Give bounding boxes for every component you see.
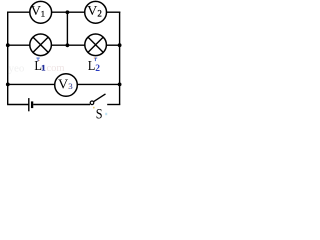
wire left rail to V3 (8, 83, 55, 85)
lamp L2 (85, 34, 107, 56)
svg-text:1: 1 (41, 9, 45, 19)
wire bottom left to battery (7, 104, 29, 106)
svg-text:2: 2 (95, 64, 100, 74)
wire switch to right rail (107, 104, 120, 106)
watermark yellow dot (93, 107, 95, 109)
svg-text:V: V (87, 3, 98, 18)
node junction top middle (66, 10, 70, 14)
watermark blue dot (105, 113, 107, 115)
switch S (90, 94, 105, 105)
wire middle vertical link (66, 12, 68, 45)
voltmeter V1 (30, 1, 52, 23)
svg-text:3: 3 (69, 81, 73, 91)
wire left rail to L1 (8, 44, 30, 46)
svg-text:1: 1 (41, 63, 45, 73)
voltmeter V3 (55, 74, 78, 97)
svg-text:V: V (58, 77, 69, 92)
wire V2 to right rail (107, 11, 121, 13)
battery (29, 98, 32, 111)
node junction left rail lamp row (6, 43, 10, 47)
label S (96, 107, 103, 123)
label L1 (34, 59, 45, 74)
watermark T mark under L1 (36, 58, 39, 62)
wire battery to switch (33, 104, 90, 106)
wire L2 to right rail (106, 44, 119, 46)
watermark yeo (9, 63, 25, 75)
wire right rail (119, 12, 121, 105)
label L2 (88, 59, 100, 74)
lamp L1 (30, 34, 52, 56)
node junction lamp row middle (66, 43, 70, 47)
wire V3 to right rail (77, 83, 119, 85)
wire top-left to V1 (7, 11, 30, 13)
wire V1 to V2 (52, 11, 85, 13)
voltmeter V2 (85, 1, 107, 23)
wire L1 to L2 (51, 44, 85, 46)
node junction left rail V3 row (6, 83, 10, 87)
watermark com (47, 63, 65, 74)
svg-text:2: 2 (97, 9, 102, 19)
node junction right rail lamp row (118, 43, 122, 47)
node junction right rail V3 row (118, 83, 122, 87)
svg-text:yeo: yeo (9, 63, 25, 75)
watermark T mark under L2 (94, 58, 97, 62)
wire left rail (7, 12, 9, 105)
svg-text:com: com (47, 63, 65, 74)
svg-text:S: S (96, 107, 103, 123)
